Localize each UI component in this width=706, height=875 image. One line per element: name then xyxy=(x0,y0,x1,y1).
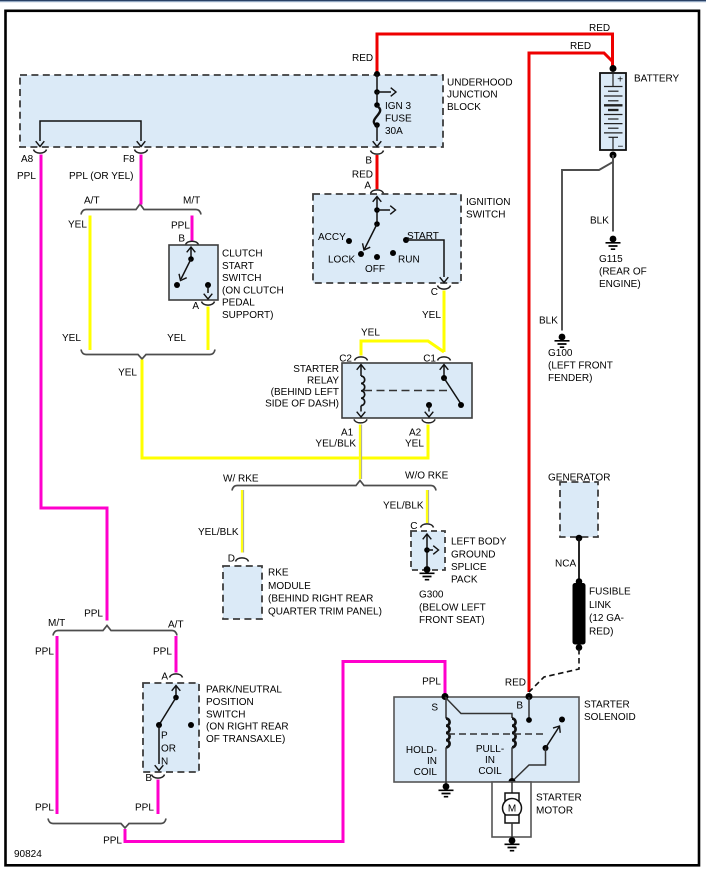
node generator output xyxy=(576,535,583,542)
ground G300 xyxy=(420,566,435,580)
svg-text:MOTOR: MOTOR xyxy=(536,806,573,817)
svg-text:PPL: PPL xyxy=(422,677,441,688)
node LOCK xyxy=(358,251,364,257)
connector A park/neutral xyxy=(170,674,183,678)
wire YEL relay top branch xyxy=(361,341,444,356)
svg-text:−: − xyxy=(618,142,624,153)
svg-text:S: S xyxy=(431,703,438,714)
svg-text:(ON RIGHT REAR: (ON RIGHT REAR xyxy=(206,722,289,733)
svg-text:30A: 30A xyxy=(385,126,403,137)
svg-text:W/ RKE: W/ RKE xyxy=(223,474,259,485)
pull-in coil xyxy=(512,719,516,748)
svg-text:PARK/NEUTRAL: PARK/NEUTRAL xyxy=(206,685,282,696)
wire BLK battery to G100 xyxy=(562,156,613,331)
svg-text:RELAY: RELAY xyxy=(307,376,339,387)
svg-text:B: B xyxy=(365,156,372,167)
svg-text:G115: G115 xyxy=(599,254,623,265)
svg-text:YEL: YEL xyxy=(405,439,424,450)
svg-text:PPL: PPL xyxy=(171,221,190,232)
relay switch xyxy=(440,365,449,370)
svg-text:STARTER: STARTER xyxy=(293,364,339,375)
bracket split RKE xyxy=(232,481,436,491)
svg-text:W/O RKE: W/O RKE xyxy=(405,471,449,482)
svg-text:ENGINE): ENGINE) xyxy=(599,279,641,290)
svg-text:YEL: YEL xyxy=(361,328,380,339)
relay dashed link xyxy=(364,390,450,392)
node START xyxy=(403,237,409,243)
svg-text:YEL/BLK: YEL/BLK xyxy=(315,439,356,450)
svg-text:A8: A8 xyxy=(21,154,34,165)
svg-text:A2: A2 xyxy=(409,428,422,439)
svg-text:BLOCK: BLOCK xyxy=(447,102,481,113)
wire YEL ignition C to relay C1 xyxy=(443,291,446,353)
svg-text:START: START xyxy=(407,231,439,242)
svg-text:A: A xyxy=(192,301,199,312)
svg-text:SIDE OF DASH): SIDE OF DASH) xyxy=(265,399,339,410)
node OFF xyxy=(374,254,380,260)
fusible link xyxy=(573,583,586,645)
svg-text:N: N xyxy=(161,757,168,768)
svg-text:OF TRANSAXLE): OF TRANSAXLE) xyxy=(206,734,285,745)
svg-text:A/T: A/T xyxy=(168,620,184,631)
svg-text:STARTER: STARTER xyxy=(584,700,630,711)
starter relay box xyxy=(342,363,472,418)
svg-text:ACCY: ACCY xyxy=(318,232,346,243)
fuse IGN 3 30A xyxy=(374,71,380,77)
svg-text:G300: G300 xyxy=(419,590,444,601)
connector A8 xyxy=(34,150,47,154)
node battery - xyxy=(610,152,617,159)
svg-text:COIL: COIL xyxy=(478,766,502,777)
bracket split M/T A/T (bottom) xyxy=(53,626,177,636)
svg-text:RED: RED xyxy=(570,41,591,52)
node ACCY xyxy=(346,238,352,244)
svg-text:GENERATOR: GENERATOR xyxy=(548,473,610,484)
svg-text:YEL: YEL xyxy=(62,333,81,344)
svg-text:MODULE: MODULE xyxy=(268,581,311,592)
svg-text:P: P xyxy=(161,731,168,742)
svg-text:G100: G100 xyxy=(548,348,573,359)
motor M xyxy=(511,782,513,793)
wire RED long to solenoid B xyxy=(529,53,613,692)
svg-text:A: A xyxy=(161,672,168,683)
svg-text:SOLENOID: SOLENOID xyxy=(584,712,636,723)
svg-text:RED: RED xyxy=(505,678,526,689)
underhood junction block box xyxy=(20,75,443,147)
svg-text:PEDAL: PEDAL xyxy=(222,298,255,309)
clutch internals xyxy=(187,247,196,252)
svg-text:SWITCH: SWITCH xyxy=(206,709,245,720)
connector A1 xyxy=(354,419,367,423)
svg-text:BLK: BLK xyxy=(539,316,558,327)
connector B junction bottom xyxy=(371,151,384,155)
svg-text:(12 GA-: (12 GA- xyxy=(589,613,624,624)
connector A2 xyxy=(422,419,435,423)
node RUN xyxy=(390,250,396,256)
ground hold-in coil xyxy=(445,782,447,785)
wire YEL merged to relay A2 xyxy=(142,360,428,459)
svg-text:PULL-: PULL- xyxy=(476,744,504,755)
svg-text:FUSIBLE: FUSIBLE xyxy=(589,587,631,598)
svg-text:FRONT SEAT): FRONT SEAT) xyxy=(419,615,485,626)
wire PPL merged to solenoid S xyxy=(125,662,445,842)
left body ground splice pack box xyxy=(411,531,445,570)
connector A clutch xyxy=(202,302,215,306)
svg-text:(BEHIND LEFT: (BEHIND LEFT xyxy=(271,387,339,398)
wire dashed fusible link to solenoid B xyxy=(529,649,579,692)
svg-text:YEL/BLK: YEL/BLK xyxy=(198,527,239,538)
wire PPL A/T bottom branch xyxy=(175,636,178,673)
connector C1 xyxy=(438,357,451,361)
svg-text:A: A xyxy=(364,181,371,192)
wire NCA xyxy=(578,538,580,580)
connector A ignition xyxy=(371,190,384,194)
wire PPL park B down xyxy=(157,780,160,815)
svg-text:BATTERY: BATTERY xyxy=(634,74,680,85)
ignition switch arm to LOCK xyxy=(365,224,378,249)
svg-text:D: D xyxy=(228,554,235,565)
relay coil xyxy=(357,365,366,370)
svg-text:COIL: COIL xyxy=(414,767,438,778)
wire START to C xyxy=(406,240,444,277)
node pull-in to motor xyxy=(509,778,516,785)
svg-text:HOLD-: HOLD- xyxy=(406,745,437,756)
battery xyxy=(600,73,626,150)
svg-text:(REAR OF: (REAR OF xyxy=(599,267,647,278)
ground G115 xyxy=(606,236,621,250)
wire YEL/BLK relay A1 down xyxy=(361,425,363,480)
wire RED B to A xyxy=(376,155,379,189)
svg-text:PACK: PACK xyxy=(451,575,478,586)
ground starter motor xyxy=(505,837,520,851)
svg-text:YEL: YEL xyxy=(167,333,186,344)
svg-text:RED: RED xyxy=(352,170,373,181)
svg-text:IN: IN xyxy=(427,756,437,767)
svg-text:NCA: NCA xyxy=(555,559,576,570)
connector C2 xyxy=(355,357,368,361)
svg-text:FUSE: FUSE xyxy=(385,114,412,125)
svg-text:SWITCH: SWITCH xyxy=(222,273,261,284)
svg-text:OFF: OFF xyxy=(365,264,385,275)
svg-text:SUPPORT): SUPPORT) xyxy=(222,310,274,321)
starter motor box xyxy=(492,782,531,837)
svg-text:IN: IN xyxy=(485,755,495,766)
connector F8 xyxy=(135,150,148,154)
svg-text:LINK: LINK xyxy=(589,600,612,611)
wire YEL A/T branch xyxy=(89,216,92,351)
svg-text:YEL: YEL xyxy=(422,310,441,321)
wire YEL/BLK W/ RKE branch xyxy=(243,490,245,553)
park/neutral position switch box xyxy=(143,683,199,772)
svg-text:M: M xyxy=(508,804,516,815)
svg-text:LEFT BODY: LEFT BODY xyxy=(451,537,507,548)
svg-text:C: C xyxy=(431,287,438,298)
svg-text:YEL: YEL xyxy=(68,220,87,231)
bracket split A/T M/T (top) xyxy=(81,204,201,215)
svg-text:START: START xyxy=(222,261,254,272)
wire PPL M/T branch xyxy=(191,216,194,241)
svg-text:(BELOW LEFT: (BELOW LEFT xyxy=(419,603,486,614)
ignition switch box xyxy=(313,194,461,283)
svg-text:RED: RED xyxy=(352,53,373,64)
bracket merge PPL bottom xyxy=(48,819,166,829)
svg-text:LOCK: LOCK xyxy=(328,255,356,266)
svg-text:SWITCH: SWITCH xyxy=(466,209,505,220)
hold-in coil xyxy=(445,697,512,718)
svg-text:PPL: PPL xyxy=(17,171,36,182)
svg-text:PPL: PPL xyxy=(35,803,54,814)
svg-text:PPL (OR YEL): PPL (OR YEL) xyxy=(69,171,133,182)
svg-text:UNDERHOOD: UNDERHOOD xyxy=(447,78,513,89)
node fusible link bottom xyxy=(576,644,583,651)
svg-text:F8: F8 xyxy=(123,154,135,165)
svg-text:PPL: PPL xyxy=(135,803,154,814)
junction block internal bus A8-F8 xyxy=(40,121,141,141)
svg-text:A1: A1 xyxy=(341,428,354,439)
splice pack internals xyxy=(423,534,432,539)
svg-text:OR: OR xyxy=(161,744,176,755)
svg-text:B: B xyxy=(516,701,523,712)
svg-text:IGN 3: IGN 3 xyxy=(385,101,412,112)
RKE module box xyxy=(223,566,262,619)
svg-text:GROUND: GROUND xyxy=(451,550,495,561)
svg-text:(LEFT FRONT: (LEFT FRONT xyxy=(548,361,613,372)
park/neutral internals xyxy=(172,686,181,691)
svg-text:RUN: RUN xyxy=(398,255,420,266)
solenoid switch xyxy=(528,697,530,719)
svg-text:B: B xyxy=(178,234,185,245)
svg-text:RKE: RKE xyxy=(268,568,289,579)
svg-text:FENDER): FENDER) xyxy=(548,373,592,384)
svg-text:CLUTCH: CLUTCH xyxy=(222,249,263,260)
svg-text:STARTER: STARTER xyxy=(536,793,582,804)
svg-text:B: B xyxy=(145,773,152,784)
svg-text:POSITION: POSITION xyxy=(206,697,254,708)
svg-text:PPL: PPL xyxy=(84,609,103,620)
wire PPL M/T bottom branch xyxy=(56,636,59,814)
svg-text:PPL: PPL xyxy=(103,836,122,847)
node S xyxy=(442,693,449,700)
wire PPL A8 to bottom split xyxy=(41,155,107,621)
svg-text:BLK: BLK xyxy=(590,216,609,227)
wire YEL/BLK W/O RKE branch xyxy=(428,490,430,523)
starter solenoid box xyxy=(394,697,579,782)
ground G100 xyxy=(555,334,570,348)
svg-text:QUARTER TRIM PANEL): QUARTER TRIM PANEL) xyxy=(268,607,382,618)
clutch start switch box xyxy=(169,245,218,300)
svg-text:YEL/BLK: YEL/BLK xyxy=(383,501,424,512)
top window strip xyxy=(0,0,706,1)
svg-text:IGNITION: IGNITION xyxy=(466,197,510,208)
connector B park/neutral xyxy=(152,775,165,779)
wire BLK battery to G115 xyxy=(612,155,614,232)
node B xyxy=(526,693,533,700)
wire PPL F8 down xyxy=(140,155,143,205)
connector B clutch xyxy=(186,241,199,245)
svg-text:(ON CLUTCH: (ON CLUTCH xyxy=(222,285,284,296)
solenoid dashed link xyxy=(448,733,546,735)
svg-text:A/T: A/T xyxy=(84,196,100,207)
ignition internals xyxy=(373,197,382,202)
svg-text:YEL: YEL xyxy=(118,368,137,379)
svg-text:M/T: M/T xyxy=(48,618,65,629)
svg-text:SPLICE: SPLICE xyxy=(451,562,487,573)
connector D RKE module xyxy=(236,558,249,562)
svg-text:RED: RED xyxy=(589,23,610,34)
connector C ignition xyxy=(438,286,451,290)
svg-text:M/T: M/T xyxy=(183,196,200,207)
svg-text:90824: 90824 xyxy=(14,849,42,860)
wire RED battery feed (top) xyxy=(377,34,613,74)
node fusible link top xyxy=(576,578,583,585)
wire YEL clutch A down xyxy=(207,307,210,351)
node battery + xyxy=(610,65,617,72)
svg-text:(BEHIND RIGHT REAR: (BEHIND RIGHT REAR xyxy=(268,594,373,605)
svg-text:+: + xyxy=(617,75,623,86)
svg-text:PPL: PPL xyxy=(153,647,172,658)
bracket merge YEL xyxy=(81,350,215,360)
svg-text:PPL: PPL xyxy=(35,647,54,658)
svg-text:RED): RED) xyxy=(589,626,613,637)
connector C splice pack xyxy=(421,524,434,528)
svg-text:JUNCTION: JUNCTION xyxy=(447,90,498,101)
